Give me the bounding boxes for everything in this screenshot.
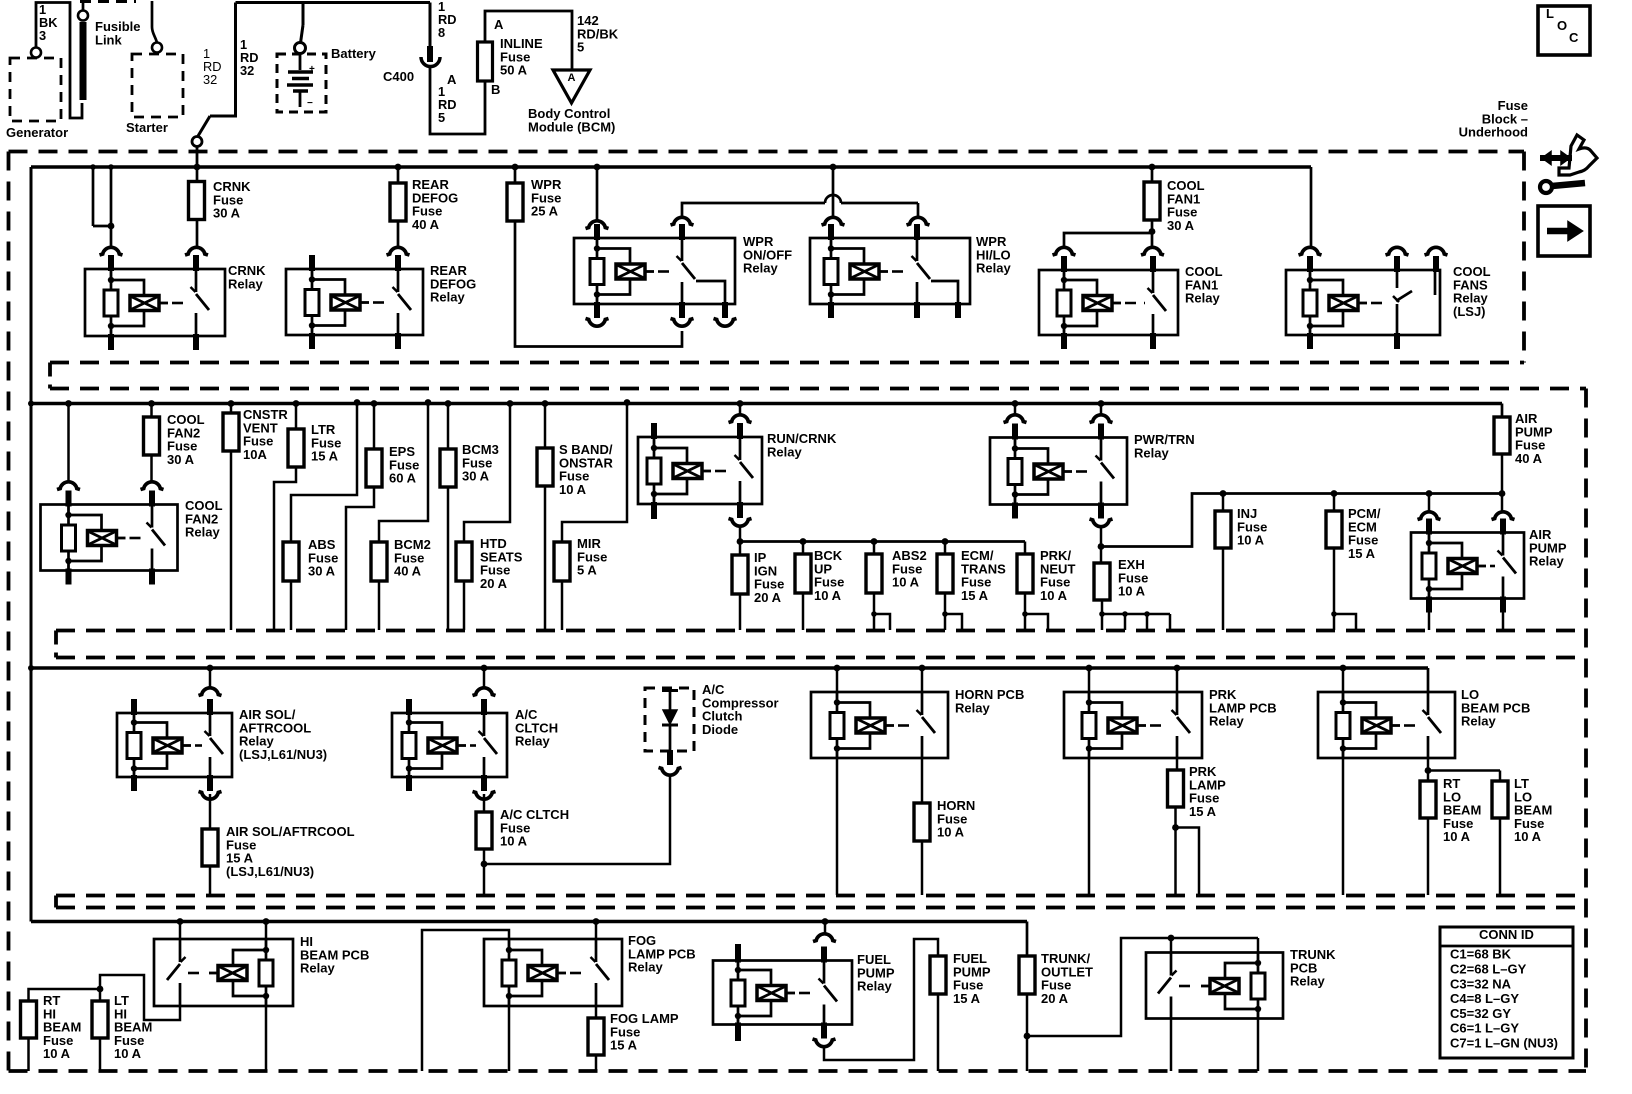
svg-text:CRNKRelay: CRNKRelay	[228, 263, 266, 291]
svg-text:−: −	[307, 98, 313, 109]
svg-text:O: O	[1557, 18, 1567, 33]
svg-text:Battery: Battery	[331, 46, 377, 61]
svg-text:COOLFAN2Relay: COOLFAN2Relay	[185, 498, 223, 539]
svg-text:EPSFuse60 A: EPSFuse60 A	[389, 444, 419, 485]
svg-text:WPRFuse25 A: WPRFuse25 A	[531, 177, 562, 218]
svg-text:A: A	[494, 17, 504, 32]
svg-text:C400: C400	[383, 69, 414, 84]
svg-text:FUELPUMPRelay: FUELPUMPRelay	[857, 952, 895, 993]
svg-text:A: A	[568, 72, 576, 84]
svg-text:Generator: Generator	[6, 125, 68, 140]
svg-text:ABSFuse30 A: ABSFuse30 A	[308, 537, 338, 578]
svg-text:Body ControlModule (BCM): Body ControlModule (BCM)	[528, 106, 615, 134]
svg-text:COOLFAN1Relay: COOLFAN1Relay	[1185, 264, 1223, 305]
svg-text:BCKUPFuse10 A: BCKUPFuse10 A	[814, 548, 844, 603]
svg-text:WPRHI/LORelay: WPRHI/LORelay	[976, 234, 1011, 275]
svg-text:COOLFANSRelay(LSJ): COOLFANSRelay(LSJ)	[1453, 264, 1491, 319]
svg-text:EXHFuse10 A: EXHFuse10 A	[1118, 557, 1148, 598]
svg-text:A: A	[447, 72, 457, 87]
svg-text:L: L	[1546, 6, 1554, 21]
svg-text:+: +	[309, 64, 315, 75]
svg-text:CONN ID: CONN ID	[1479, 927, 1534, 942]
svg-text:C: C	[1569, 30, 1579, 45]
svg-text:Starter: Starter	[126, 120, 168, 135]
svg-text:B: B	[491, 82, 500, 97]
